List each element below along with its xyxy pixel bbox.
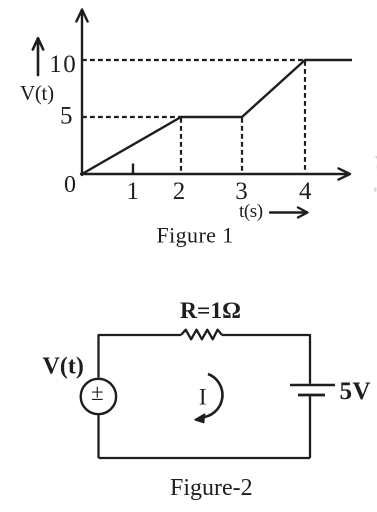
svg-text:5: 5 — [60, 103, 73, 130]
x tick mark t=1 — [132, 164, 134, 174]
svg-text:5V: 5V — [340, 378, 372, 405]
dashed level line V=10 — [82, 59, 305, 61]
dashed level line V=5 — [82, 116, 181, 118]
dashed vertical t=4 — [304, 61, 306, 173]
svg-text:2: 2 — [173, 178, 186, 205]
wire: bottom-left corner up to source — [97, 415, 99, 458]
bottom wire — [99, 457, 311, 459]
svg-text:4: 4 — [299, 178, 312, 205]
svg-text:t(s): t(s) — [239, 201, 263, 222]
stray faint mark (right edge, cropped glyph) — [374, 156, 377, 170]
svg-text:V(t): V(t) — [20, 81, 54, 105]
svg-text:Figure 1: Figure 1 — [157, 223, 234, 248]
dashed vertical t=3 — [241, 118, 243, 173]
svg-text:10: 10 — [49, 51, 77, 78]
V(t) waveform — [82, 60, 352, 174]
x-axis — [81, 168, 350, 179]
t(s) label arrow — [270, 208, 308, 218]
voltage source circle — [81, 379, 116, 414]
svg-text:R=1Ω: R=1Ω — [180, 298, 241, 324]
svg-text:I: I — [199, 385, 207, 410]
current direction arc — [201, 374, 223, 418]
battery short plate — [298, 394, 325, 397]
svg-text:1: 1 — [127, 178, 140, 205]
V(t) axis-name arrow — [33, 38, 43, 75]
battery long plate — [290, 384, 335, 387]
current arrowhead — [195, 414, 205, 422]
dashed vertical t=2 — [180, 118, 182, 173]
wire: resistor to top-right corner, down to battery — [222, 335, 310, 384]
svg-text:V(t): V(t) — [43, 354, 84, 380]
stray faint dot (right edge) — [374, 187, 377, 192]
wire: battery to bottom-right corner — [309, 396, 311, 458]
resistor R — [181, 330, 222, 340]
svg-text:0: 0 — [64, 172, 76, 198]
svg-text:±: ± — [91, 380, 104, 405]
y-axis — [76, 10, 87, 176]
svg-text:Figure-2: Figure-2 — [170, 475, 253, 501]
wire: top-left corner to resistor — [99, 335, 182, 378]
